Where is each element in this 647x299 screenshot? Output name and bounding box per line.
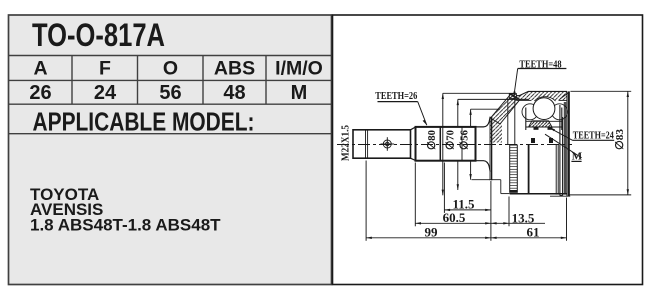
svg-text:TEETH=48: TEETH=48 bbox=[519, 58, 562, 70]
center mark bbox=[383, 140, 391, 148]
svg-text:TEETH=24: TEETH=24 bbox=[573, 130, 614, 142]
ABS ring square with X bbox=[509, 94, 516, 99]
svg-text:F: F bbox=[99, 58, 111, 80]
svg-text:∅70: ∅70 bbox=[445, 130, 457, 150]
cage / inner race under balls bbox=[526, 120, 563, 122]
dim 13.5 outside arrows + line bbox=[491, 222, 545, 224]
dia 56 bent dimension bbox=[470, 109, 472, 127]
svg-text:ABS: ABS bbox=[214, 58, 255, 80]
dia83 extension lines bbox=[570, 90, 631, 92]
svg-text:60.5: 60.5 bbox=[443, 210, 466, 225]
svg-text:I/M/O: I/M/O bbox=[275, 58, 323, 80]
flare to housing top bbox=[476, 117, 491, 127]
svg-text:M: M bbox=[291, 82, 308, 104]
svg-text:M22X1.5: M22X1.5 bbox=[341, 125, 352, 161]
TEETH=24 label leader bbox=[550, 128, 573, 141]
centerline bbox=[337, 144, 572, 146]
dim 99 bbox=[366, 237, 491, 239]
svg-text:24: 24 bbox=[94, 82, 117, 104]
svg-text:∅83: ∅83 bbox=[614, 129, 626, 150]
right drawing panel bbox=[333, 15, 643, 285]
table column lines bbox=[71, 56, 73, 105]
svg-text:TEETH=26: TEETH=26 bbox=[375, 90, 417, 102]
svg-text:∅56: ∅56 bbox=[459, 130, 471, 150]
svg-text:∅80: ∅80 bbox=[426, 130, 438, 150]
svg-text:26: 26 bbox=[29, 82, 51, 104]
internal step lines bbox=[439, 127, 441, 161]
chamfer transition bbox=[411, 127, 416, 130]
svg-text:13.5: 13.5 bbox=[512, 210, 535, 225]
svg-text:99: 99 bbox=[425, 225, 439, 240]
shaft M22X1.5 threaded stub bbox=[353, 130, 411, 158]
TEETH=26 label bbox=[378, 101, 418, 103]
boot groove cylinder bbox=[416, 127, 476, 161]
single back-diagonal at band right bbox=[560, 93, 568, 99]
left ball bbox=[522, 104, 538, 120]
center ball bbox=[533, 98, 555, 120]
ball track arc bbox=[530, 97, 560, 127]
svg-text:48: 48 bbox=[223, 82, 245, 104]
bold inner vertical bottom half bbox=[528, 145, 530, 194]
svg-text:56: 56 bbox=[159, 82, 181, 104]
inner sleeve verticals top half bbox=[507, 98, 509, 144]
flare to housing bottom bbox=[476, 161, 491, 172]
boot groove serrated block (bottom half) bbox=[510, 145, 518, 192]
dia 70 bent dimension bbox=[457, 99, 459, 127]
svg-text:1.8 ABS48T-1.8 ABS48T: 1.8 ABS48T-1.8 ABS48T bbox=[30, 216, 221, 235]
svg-text:TO-O-817A: TO-O-817A bbox=[32, 17, 165, 53]
hatched wedge housing left wall bbox=[491, 94, 521, 124]
svg-text:APPLICABLE MODEL:: APPLICABLE MODEL: bbox=[33, 107, 255, 137]
thread relief lines bbox=[365, 130, 367, 158]
thin verticals right inner bbox=[555, 145, 557, 195]
dim 60.5 bbox=[415, 222, 491, 224]
M label leader bbox=[545, 134, 582, 158]
svg-text:A: A bbox=[33, 58, 47, 80]
bottom dimension extension lines bbox=[365, 161, 367, 241]
table row lines bbox=[9, 55, 332, 57]
TEETH=48 label bbox=[518, 68, 567, 70]
dia83 dimension line bbox=[627, 91, 629, 195]
housing top band (hatched) bbox=[516, 91, 567, 100]
bottom-left housing lip bbox=[472, 179, 501, 181]
dim 61 bbox=[491, 237, 567, 239]
dim 11.5 bbox=[444, 209, 491, 211]
left table panel bbox=[9, 15, 332, 285]
housing left face lines bbox=[489, 117, 491, 181]
right ball bbox=[552, 104, 568, 120]
dia 80 bent dimension bbox=[442, 93, 444, 195]
svg-text:M: M bbox=[572, 150, 583, 162]
svg-text:O: O bbox=[163, 58, 178, 80]
right face plate bbox=[566, 91, 568, 196]
svg-text:61: 61 bbox=[527, 225, 540, 240]
housing bottom edge bbox=[510, 193, 567, 195]
